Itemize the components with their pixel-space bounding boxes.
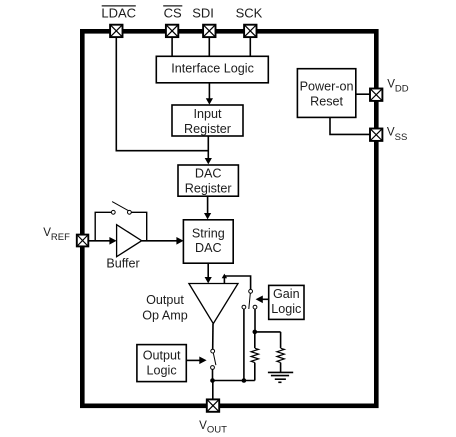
pin LDAC [110,25,122,37]
svg-text:SDI: SDI [192,6,214,21]
wire Interface Logic to Input Register [206,83,213,105]
buffer bypass switch [95,202,147,241]
wire rail to VOUT pin [212,381,214,400]
wire LDAC pin to spine [116,37,207,151]
DAC register box [178,165,238,196]
pin VOUT [207,399,219,411]
wire junction to resistor R2 [255,331,281,333]
input register box [172,105,243,136]
label LDAC [101,6,136,21]
svg-text:VSS: VSS [387,126,407,143]
ground [268,372,293,382]
wire op-amp output to switch [212,324,214,350]
svg-text:String: String [192,226,225,240]
output switch [211,349,216,369]
wire VREF to buffer [88,237,117,245]
svg-text:Input: Input [193,107,222,121]
svg-text:Register: Register [184,122,231,136]
wire POR to VDD pin [356,93,371,95]
svg-text:Output: Output [143,349,181,363]
wire gain switch left contact to output rail [243,309,245,380]
wire POR to VSS pin [330,117,371,134]
output op amp U2 [142,284,238,324]
svg-text:DAC: DAC [195,241,222,255]
wire output switch to rail [212,370,214,381]
buffer U1 [106,225,141,271]
pin SCK [244,25,256,37]
node rail-gain [242,378,247,383]
svg-text:Op Amp: Op Amp [142,308,188,322]
svg-text:VREF: VREF [43,226,70,243]
svg-text:CS: CS [164,6,182,21]
svg-text:Logic: Logic [147,364,177,378]
svg-text:Buffer: Buffer [106,256,139,270]
wire DAC Register to String DAC [204,196,211,219]
power-on reset box [297,69,355,118]
chip boundary [82,31,376,406]
svg-text:DAC: DAC [195,167,222,181]
svg-text:VDD: VDD [387,78,409,95]
svg-text:Logic: Logic [271,302,301,316]
pin VREF [77,235,89,247]
output logic box [137,345,186,382]
wire Input Register to DAC Register [205,136,212,164]
node rail-VOUT [210,378,215,383]
pin VSS [370,129,382,141]
node resistor junction [253,330,258,335]
wire SDI pin to Interface Logic [208,37,210,56]
label CS [163,6,182,21]
wire String DAC to Output Op Amp [205,263,212,283]
gain logic box [269,285,304,319]
svg-text:Register: Register [185,182,232,196]
pin CS [166,25,178,37]
string DAC box [183,220,233,263]
pin VDD [370,89,382,101]
wire output rail [213,380,255,382]
wire gain switch right contact to resistor node [254,309,256,332]
wire op-amp feedback to gain switch [224,276,250,289]
wire SCK pin to Interface Logic [249,37,251,56]
svg-text:Reset: Reset [310,95,343,109]
resistor R1 [251,332,258,381]
svg-text:Power-on: Power-on [300,80,354,94]
wire CS pin to Interface Logic [171,37,173,56]
wire output logic to output switch [186,357,206,365]
svg-text:Interface Logic: Interface Logic [171,61,254,75]
svg-text:Output: Output [146,293,184,307]
svg-text:SCK: SCK [236,6,263,21]
gain select switch [242,289,257,309]
pin SDI [203,25,215,37]
svg-text:VOUT: VOUT [199,419,227,436]
resistor R2 [277,332,284,373]
wire buffer to String DAC [142,237,184,245]
svg-text:LDAC: LDAC [101,6,136,21]
interface logic box [156,56,268,83]
svg-text:Gain: Gain [273,287,300,301]
wire gain logic to switch [256,296,269,304]
